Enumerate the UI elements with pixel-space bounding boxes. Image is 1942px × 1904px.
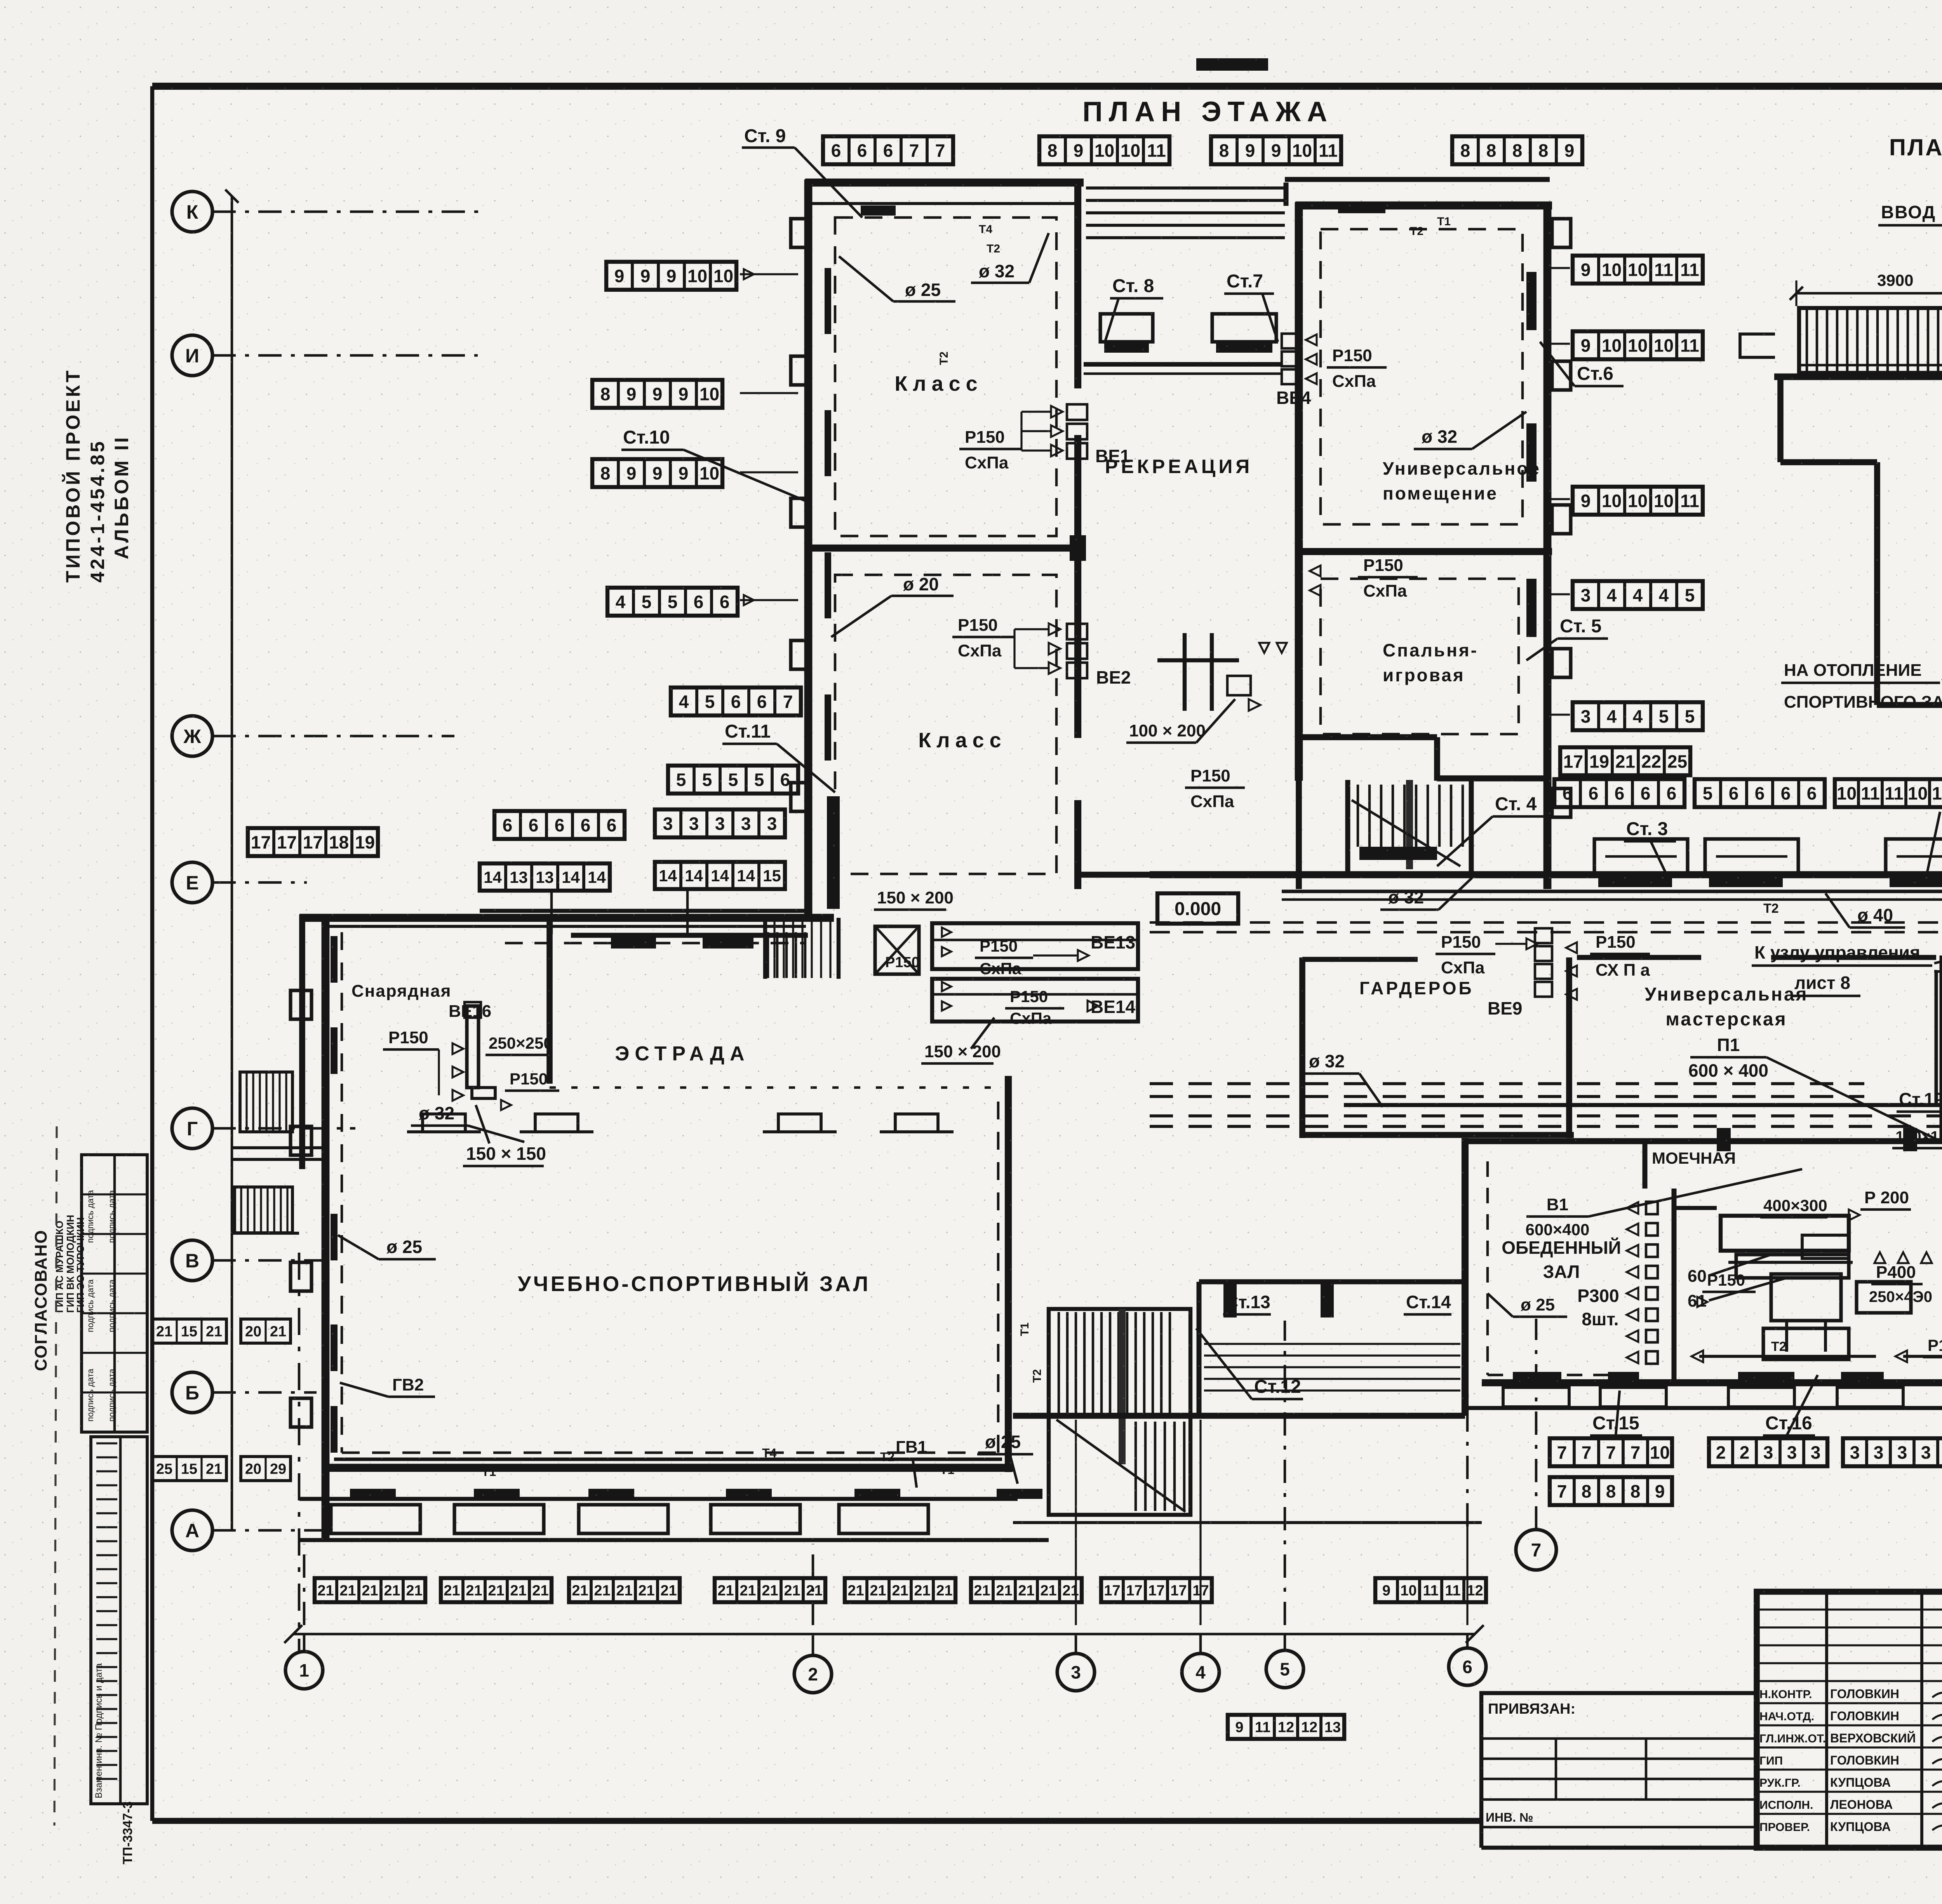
privyazan box (1481, 1693, 1757, 1848)
stage front dashed (550, 1086, 1004, 1089)
title block top rows (1757, 1608, 1942, 1610)
block A top wall (805, 179, 1084, 187)
dining below ledge (1468, 1406, 1942, 1410)
corridor dashed pipes band (1150, 921, 1942, 924)
VE2 shaft boxes (1067, 624, 1087, 639)
corridor radiators right (1598, 877, 1672, 887)
left approval table rows (82, 1193, 147, 1195)
axis tick at K (225, 190, 238, 203)
stage column footings (407, 1114, 481, 1132)
univers room heating loop (1321, 229, 1523, 524)
axis bubble А (172, 1510, 212, 1551)
block A outer left wall (804, 179, 813, 917)
stairwell hatch (1357, 785, 1359, 847)
box row 17-19-21 (1560, 747, 1690, 775)
small box row near frame r1a (152, 1319, 226, 1343)
basement corridor wall h (1877, 702, 1942, 708)
snaryadnaya right wall (546, 921, 553, 1084)
bottom dim tick right (1466, 1625, 1484, 1643)
gym bottom pipes T1 (334, 1457, 1002, 1461)
dashes along E corridor west (505, 942, 804, 945)
box row 21 group 3 (569, 1578, 680, 1602)
axis bubble Ж (172, 716, 212, 756)
VE4 boxes (1282, 334, 1299, 348)
radiator bar top corner (861, 205, 896, 216)
classroom 2 heating loop dashed (835, 575, 1056, 874)
dining south radiators (1513, 1372, 1561, 1382)
dining T2 line (1699, 1355, 1876, 1358)
small box row near frame r2b (241, 1457, 291, 1481)
sheet frame bottom border (152, 1818, 1482, 1824)
bubble 3 leader up (1075, 1420, 1077, 1625)
dining arrow stack (1627, 1202, 1638, 1214)
box row 33333 mid (655, 809, 785, 837)
small arrows ve13 (942, 928, 951, 937)
gym left radiator bars (331, 936, 338, 983)
block A corridor wall (1074, 179, 1081, 388)
bubble stubs (303, 1634, 306, 1652)
dining south wall (1482, 1379, 1942, 1386)
box row 9-13 lower (1228, 1715, 1344, 1739)
corridor window bays (1594, 839, 1688, 875)
axis Е dash-dot line (212, 881, 307, 884)
basement corridor wall v (1874, 462, 1880, 705)
box row 1413 (480, 863, 610, 891)
basement stair walls (1799, 308, 1942, 373)
block B right wall (1544, 202, 1552, 889)
midrooms west wall (1197, 1282, 1202, 1416)
bottom dim tick left (284, 1625, 302, 1643)
left approval table box (82, 1155, 147, 1432)
box row top B (1039, 136, 1169, 164)
stairwell diagonal (1352, 800, 1460, 866)
masterskaya north wall (1577, 955, 1701, 960)
leader row4 to wall (740, 599, 798, 601)
box row left 3 (592, 459, 722, 487)
spalnya south wall (1295, 734, 1437, 740)
axis И dash-dot line (212, 354, 478, 357)
box row 10-11 (1835, 779, 1942, 807)
classroom 1 heating loop dashed (835, 218, 1056, 536)
axis Ж dash-dot line (212, 735, 454, 738)
axis Г dash-dot line (212, 1127, 355, 1130)
corridor radiator A (611, 937, 656, 949)
gym window bays bottom (331, 1505, 420, 1533)
basement stair hatch (1806, 310, 1808, 371)
box row left 6 (668, 766, 798, 794)
title block outer (1757, 1592, 1942, 1848)
axis bubble Е (172, 862, 212, 903)
bubble 7 leader (1535, 1319, 1538, 1530)
left stamp strip text ticks (96, 1442, 117, 1444)
vent canopy bar top (1196, 58, 1268, 71)
midrooms top wall (1199, 1279, 1465, 1284)
axis А dash-dot line (212, 1529, 326, 1532)
leader box14 b (686, 889, 689, 934)
VE14 duct rect (932, 979, 1138, 1022)
privyazan grid v (1555, 1739, 1557, 1800)
gym bottom wall (322, 1464, 1013, 1472)
dining north wall (1465, 1138, 1942, 1144)
axis vertical line col2 (298, 1253, 301, 1653)
right stairwell (1049, 1309, 1190, 1515)
corridor north wall right (1150, 871, 1942, 878)
VE13 duct rect (932, 923, 1138, 969)
ve16 elbow (472, 1088, 495, 1098)
block A top wall inner line (812, 202, 1081, 205)
basement dim ticks (1790, 287, 1803, 300)
box row right 2 (1573, 331, 1703, 359)
stage side stairs (764, 919, 766, 978)
title block name rows (1757, 1680, 1942, 1682)
stair to stage walls (763, 918, 767, 979)
bubble 4 leader up (1199, 1420, 1201, 1625)
left stamp tall strip divider (119, 1437, 122, 1804)
gym right wall (1005, 1076, 1012, 1472)
classroom divider wall (805, 545, 1081, 552)
small box row near frame r2a (152, 1457, 226, 1481)
small box row near frame r1b (241, 1319, 291, 1343)
VE16 duct (467, 1006, 479, 1088)
axis К dash-dot line (212, 211, 484, 213)
spalnya heating loop (1321, 579, 1519, 734)
box row 21 group 4 (715, 1578, 825, 1602)
VE13 box with X (875, 926, 919, 974)
axis bubble 6 (1449, 1648, 1486, 1685)
box row top C (1211, 136, 1341, 164)
privyazan grid h (1481, 1737, 1757, 1740)
corridor south wall left part (571, 933, 808, 938)
left approval table divider (113, 1155, 116, 1432)
box row st15 b (1550, 1477, 1672, 1505)
box row 66666 (1554, 779, 1684, 807)
axis bubble Г (172, 1108, 212, 1149)
corridor north wall west seg (1078, 872, 1153, 878)
corridor radiator B (703, 937, 753, 949)
bath assembly (1183, 633, 1187, 711)
moechnaya wall stub (1643, 1141, 1648, 1189)
masterskaya columns (1717, 1128, 1731, 1151)
stairwell dark tread (1359, 847, 1437, 860)
axis В dash-dot line (212, 1259, 324, 1262)
divider column (1070, 535, 1086, 561)
bubble 1 leader up (303, 1544, 306, 1625)
axis bubble Б (172, 1372, 212, 1413)
axis bubble И (172, 335, 212, 376)
gym heating loop dashed (341, 932, 343, 1453)
title block signatures (1932, 1692, 1942, 1701)
box row 21 group 5 (845, 1578, 955, 1602)
recreation lower duct line (1084, 362, 1282, 367)
block join lines (1284, 183, 1289, 206)
box row left 5 (671, 687, 801, 715)
duct solid boundary (1344, 1103, 1942, 1107)
riser hatch column mid (827, 796, 840, 909)
box row right 4 (1573, 581, 1703, 609)
dashed duct band 2 (1150, 1114, 1942, 1117)
box row left 4 (607, 588, 738, 616)
block B top radiator bar (1338, 202, 1385, 213)
box row st16 (1709, 1438, 1827, 1466)
gym bottom radiators (350, 1489, 396, 1499)
axis bubble 1 (285, 1652, 323, 1689)
box row right 5 (1573, 702, 1703, 730)
block B right pilasters (1552, 219, 1571, 247)
gym outer left wall upper (299, 915, 305, 1169)
axis bubble 4 (1182, 1653, 1219, 1691)
leader right rows (1550, 267, 1570, 269)
stairwell stringer (1406, 780, 1413, 869)
midrooms inner lines (1204, 1343, 1460, 1345)
box row left 1 (606, 262, 736, 290)
box row 21 group 2 (441, 1578, 552, 1602)
gym entry stairs left 1 (239, 1072, 241, 1132)
basement left wall (1777, 377, 1784, 462)
box row mid33 (1843, 1438, 1942, 1466)
box row 17171819 (248, 828, 378, 856)
block B left wall (1295, 202, 1303, 781)
box row 9-12 bottom (1375, 1578, 1486, 1602)
recreation radiator unit 1 (1100, 314, 1153, 342)
title block col lines (1825, 1592, 1828, 1848)
bubble 6 leader up (1466, 1526, 1468, 1625)
box row top A (823, 136, 953, 164)
box row left 2 (592, 380, 722, 408)
stairwell walls (1345, 780, 1350, 875)
k uzlu leader lines (1934, 893, 1942, 963)
bubble 2 leader up (812, 1544, 814, 1625)
basement step left (1780, 459, 1877, 465)
box row 1415 (655, 862, 785, 889)
basement dim line (1796, 292, 1942, 295)
arrow marks on left rows (744, 269, 754, 279)
left wall radiator bars (825, 268, 831, 334)
dashed duct band long (1150, 1082, 1864, 1085)
VE9 shaft boxes (1535, 928, 1552, 943)
gym left pilasters (291, 990, 311, 1019)
box row 66666 mid (494, 811, 625, 839)
box row 56666 (1695, 779, 1825, 807)
axis bubble 2 (794, 1655, 832, 1693)
gardrob walls (1299, 957, 1305, 1138)
bottom dimension line (293, 1633, 1475, 1636)
box row right 1 (1573, 256, 1703, 284)
corridor pipe lines (1282, 889, 1942, 893)
corridor west part walls (480, 909, 808, 913)
box row 21 group 6 (971, 1578, 1082, 1602)
left stamp tall strip box (91, 1437, 147, 1804)
riser pipes at st19 (1934, 971, 1938, 1107)
axis bubble 5 (1266, 1650, 1303, 1688)
block B right riser hatch (1526, 272, 1537, 330)
terrace wall over E axis (299, 914, 834, 922)
box row top D (1452, 136, 1582, 164)
box row 17 bottom (1101, 1578, 1212, 1602)
sheet frame left border (150, 86, 154, 1821)
leader box14 a (550, 891, 553, 934)
box row right 3 (1573, 487, 1703, 515)
box row st15 a (1550, 1438, 1672, 1466)
dining hall heating dashed (1486, 1161, 1489, 1375)
corridor bay inner lines (1605, 855, 1677, 858)
gym entry stairs left 2 (233, 1187, 235, 1233)
connector block A to corridor (806, 889, 811, 918)
entry stair hatch (767, 932, 769, 978)
kitchen equipment rects (1771, 1274, 1841, 1321)
axis bubble К (172, 191, 212, 232)
privyazan bottom row (1481, 1826, 1757, 1829)
terrace south line (1013, 1521, 1482, 1524)
left thin dashed margin line (54, 1126, 57, 1826)
recreation radiator unit 2 (1212, 314, 1276, 342)
axis Б dash-dot line (212, 1391, 317, 1394)
midroom stub 1 (1223, 1282, 1237, 1317)
bubble 5 leader up (1284, 1321, 1286, 1625)
left wall pilasters (791, 219, 809, 247)
box row 21 group 1 (315, 1578, 425, 1602)
basement wall top (1774, 374, 1942, 380)
dining window bays (1503, 1387, 1569, 1407)
basement wall top inner (1799, 364, 1942, 367)
gym outer edge bottom (299, 1538, 1049, 1542)
block B top wall (1295, 202, 1552, 210)
sheet frame top border (152, 83, 1942, 90)
elevation mark 0.000 (1157, 893, 1238, 924)
axis bubble 3 (1057, 1653, 1095, 1691)
gym below ledge (299, 1497, 1018, 1501)
gym left wall (322, 921, 330, 1540)
block B divider wall (1295, 548, 1552, 555)
recreation top vent lines (1086, 186, 1285, 190)
axis bubble В (172, 1240, 212, 1281)
privyazan bottom line (1481, 1846, 1942, 1850)
VE1 shaft boxes (1067, 404, 1087, 420)
axis vertical line col (231, 196, 233, 1530)
midrooms south wall (1013, 1413, 1465, 1419)
midroom stub 2 (1321, 1282, 1334, 1317)
small porch lines (233, 1146, 325, 1149)
bubble 7 (1516, 1530, 1556, 1570)
recreation top right wall (1285, 177, 1550, 182)
leaders left rows to wall (740, 273, 798, 275)
terrace inner line (325, 925, 806, 928)
basement entry corner (1740, 334, 1775, 357)
dining west wall (1462, 1138, 1469, 1416)
dining serving walls (1672, 1189, 1677, 1383)
